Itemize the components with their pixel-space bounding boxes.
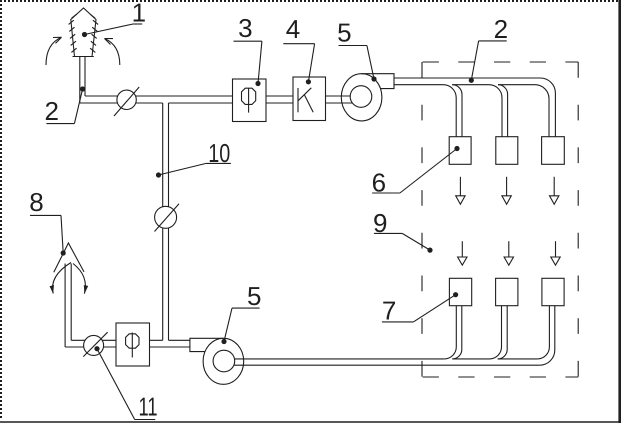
svg-text:3: 3 xyxy=(238,13,252,43)
heater box 4 xyxy=(293,77,326,121)
supply air arrow b xyxy=(502,177,511,205)
air intake box 7b xyxy=(496,278,518,305)
svg-text:8: 8 xyxy=(29,187,43,217)
wire: return pipe lower line xyxy=(234,364,540,366)
air intake box 7c xyxy=(542,278,564,305)
exhaust air arrow a xyxy=(458,241,467,265)
leader 3 xyxy=(234,41,262,86)
svg-text:11: 11 xyxy=(139,391,158,421)
wire: deflector down pipe right line xyxy=(84,57,86,97)
wire: exhaust pipe right line xyxy=(70,264,72,341)
letter F in bottom box xyxy=(126,334,139,348)
exhaust stack 8: left curved arrow xyxy=(53,263,71,294)
leader 7 xyxy=(382,292,458,322)
supply air arrow c xyxy=(550,177,559,205)
wire: main supply pipe upper line with end elbow xyxy=(394,78,555,137)
filter box bottom xyxy=(116,323,150,366)
exhaust air arrow c xyxy=(551,241,560,265)
air outlet box 6a xyxy=(449,137,471,165)
leader 5 bottom xyxy=(221,308,259,344)
border top dotted xyxy=(0,0,621,2)
air intake box 7a xyxy=(449,278,471,305)
valve V on top pipe xyxy=(117,90,136,109)
fan 5 top: inlet circle xyxy=(350,86,372,108)
wire: intake branch pipes with fillets to return pipe xyxy=(444,306,456,359)
deflector 1 hatch left xyxy=(69,14,77,52)
leader 2 right xyxy=(469,41,507,83)
exhaust air arrow b xyxy=(504,241,513,265)
leader 5 top xyxy=(339,46,377,82)
wire: deflector down pipe left line xyxy=(79,57,81,104)
border right solid xyxy=(618,0,621,423)
fan 5 bottom: casing xyxy=(203,338,244,384)
leader 9 xyxy=(374,233,433,252)
leader 11 xyxy=(94,346,155,419)
wire: pipe from filter to bottom fan lower line xyxy=(65,346,190,348)
fan 5 top: outlet duct xyxy=(362,74,394,89)
wire: return pipe upper line segments xyxy=(235,358,538,360)
wire: main supply pipe lower line segments with branch fillets xyxy=(394,85,456,137)
air outlet box 6b xyxy=(496,137,518,165)
svg-text:10: 10 xyxy=(208,138,230,168)
deflector 1 base xyxy=(73,56,94,58)
border left dotted xyxy=(0,0,2,420)
svg-text:4: 4 xyxy=(286,14,300,44)
border bottom solid xyxy=(0,421,621,423)
leader 6 xyxy=(372,146,460,193)
svg-text:9: 9 xyxy=(373,208,387,238)
supply air arrow a xyxy=(456,177,465,205)
fan 5 top: casing xyxy=(341,74,382,121)
leader 8 xyxy=(30,215,66,255)
deflector 1 outline xyxy=(71,8,96,57)
curved arrow right of deflector xyxy=(105,39,120,66)
wire: exhaust pipe left line xyxy=(64,264,66,348)
dashed room boundary xyxy=(423,62,579,377)
fan 5 bottom: inlet circle xyxy=(213,350,235,372)
svg-text:2: 2 xyxy=(494,14,508,44)
svg-text:5: 5 xyxy=(337,17,351,47)
leader 10 xyxy=(156,163,231,177)
wire: pipe from filter to bottom fan upper line xyxy=(71,339,190,341)
filter box 3 xyxy=(233,79,267,122)
svg-text:1: 1 xyxy=(132,0,146,28)
leader 1 xyxy=(82,24,142,37)
svg-text:7: 7 xyxy=(382,296,396,326)
leader 2 left xyxy=(46,86,85,123)
deflector 1 hatch right xyxy=(90,14,98,52)
exhaust stack 8: chevron xyxy=(54,243,84,272)
wire: riser pipe 10 left line xyxy=(162,103,164,340)
wire: riser pipe 10 right line xyxy=(168,103,170,340)
wire: top pipe upper line xyxy=(85,95,350,97)
svg-text:5: 5 xyxy=(247,281,261,311)
exhaust stack 8: right curved arrow xyxy=(73,264,85,294)
letter F in box 3 xyxy=(242,88,256,104)
air outlet box 6c xyxy=(542,137,565,165)
valve on riser pipe 10 xyxy=(155,206,177,228)
svg-text:2: 2 xyxy=(44,96,58,126)
wire: top pipe lower line xyxy=(80,102,353,104)
fan 5 bottom: inlet duct xyxy=(190,338,224,351)
letter K in box 4 xyxy=(297,88,299,112)
svg-text:6: 6 xyxy=(372,168,386,198)
leader 4 xyxy=(283,44,314,85)
curved arrow left of deflector xyxy=(46,37,62,65)
valve 11 circle xyxy=(84,335,104,355)
